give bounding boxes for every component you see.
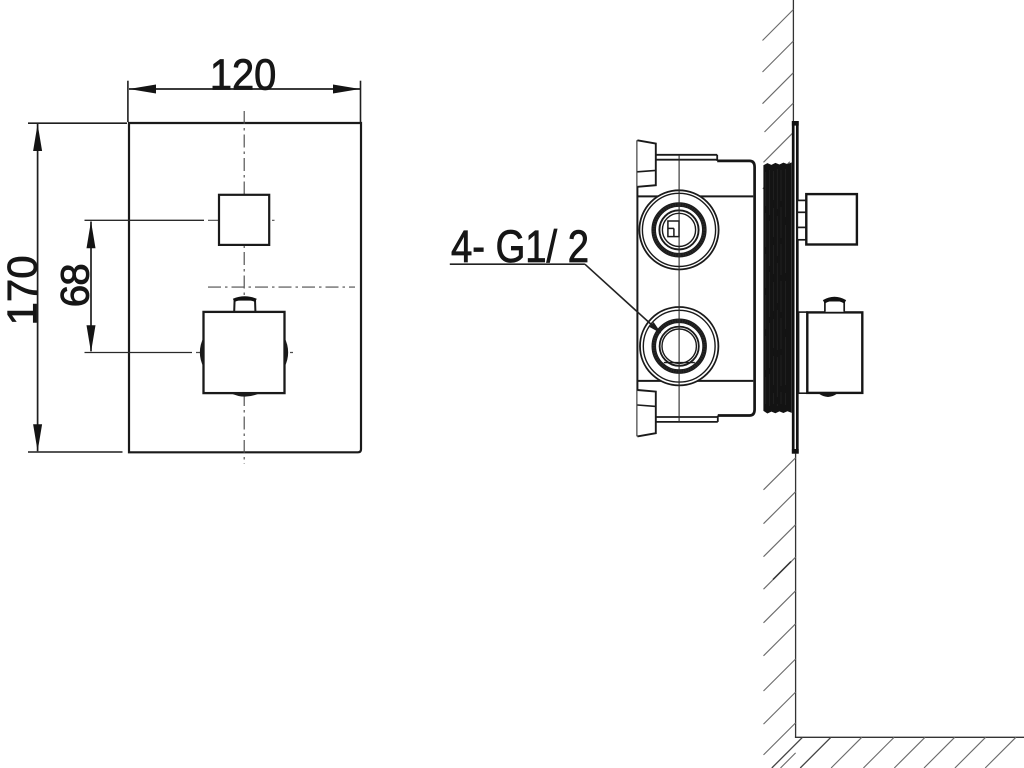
centerline through main knob (solid extension + dash-dot) xyxy=(85,352,294,354)
diverter knob (side) xyxy=(806,194,857,244)
main knob bottom lever tip (side) xyxy=(818,393,837,397)
wall hatching above valve xyxy=(763,10,794,189)
svg-text:120: 120 xyxy=(210,50,276,99)
floor line xyxy=(795,736,1024,738)
knob right side bulge xyxy=(285,338,289,368)
valve body bottom edge xyxy=(637,380,753,382)
valve housing right section (top edge, right edge, bottom edge) xyxy=(717,161,754,416)
top support rail xyxy=(656,155,717,161)
main knob (side) xyxy=(807,312,862,393)
dimension 68 (inner left) xyxy=(53,221,98,352)
faceplate (front view, 120x170 plate) xyxy=(129,123,361,452)
top port keyway xyxy=(668,221,679,237)
diverter knob stem (side) xyxy=(797,200,806,239)
mounting bracket plate (left vertical) xyxy=(636,140,638,436)
valve body top edge xyxy=(637,195,753,197)
main knob collar (side) xyxy=(799,312,808,393)
dimension 120 (top) xyxy=(128,50,361,122)
leader line with arrow to bottom port xyxy=(585,264,662,333)
bracket bottom lug xyxy=(637,390,655,436)
wall hatching below valve xyxy=(764,458,796,768)
svg-text:68: 68 xyxy=(53,264,98,307)
diverter square knob (front) xyxy=(219,195,269,245)
vertical centerline of plate xyxy=(243,111,245,464)
label 4- G1/2 xyxy=(450,221,589,272)
knob bottom bulge xyxy=(231,393,260,396)
dimension 170 (left) xyxy=(0,123,127,452)
wall line above valve xyxy=(792,0,794,121)
main knob cap (side) xyxy=(824,299,845,312)
main knob cap (front, trapezoid with domed top) xyxy=(234,298,256,312)
centerline through diverter square (solid extension + dash-dot) xyxy=(85,219,279,221)
bottom port (G1/2 connection, circles) xyxy=(640,307,718,385)
threaded section (black) xyxy=(763,162,791,413)
wall line below valve xyxy=(795,454,797,738)
top port (G1/2 connection, circles) xyxy=(639,190,718,269)
knob left side bulge xyxy=(200,338,204,368)
bracket top lug xyxy=(637,140,655,187)
horizontal centerline of plate xyxy=(208,286,355,288)
bottom support rail xyxy=(656,416,718,422)
wall flange / escutcheon sleeve xyxy=(792,121,799,454)
body axis line xyxy=(678,155,680,422)
main square knob (front) xyxy=(204,312,285,393)
svg-text:170: 170 xyxy=(0,255,45,325)
floor hatching xyxy=(772,737,1016,768)
